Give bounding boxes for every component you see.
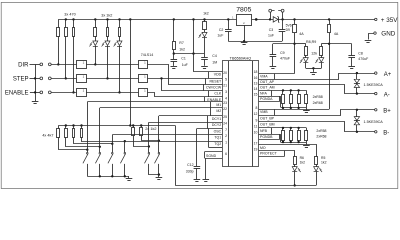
svg-text:3x 470: 3x 470: [64, 13, 75, 17]
wire ENABLE inverted row: [86, 92, 138, 94]
svg-text:21: 21: [223, 84, 227, 88]
LED D3: [119, 36, 121, 41]
terminal A-: [375, 92, 377, 94]
wire +5V switch-area rail: [58, 125, 175, 127]
wire OUT_BM to B- terminal: [259, 122, 375, 132]
LED D1: [95, 36, 97, 41]
wire TQ1 to switch S3: [112, 134, 222, 136]
wire PROTECT to R6: [259, 151, 295, 157]
input common ground wire: [35, 64, 37, 101]
wire DCY1 to switch S6: [159, 115, 222, 117]
svg-text:C2: C2: [219, 28, 224, 32]
resistor R5 1k2: [315, 157, 318, 165]
wire switch common rail: [87, 176, 129, 178]
wire +5V riser to switch area: [130, 19, 132, 125]
ground 7805: [241, 43, 248, 45]
resistor R8 12k: [295, 43, 306, 45]
svg-text:20: 20: [223, 71, 227, 75]
svg-text:8: 8: [256, 106, 258, 110]
capacitor C1 1uF: [173, 54, 175, 60]
svg-text:C8: C8: [358, 52, 363, 56]
ground C12: [194, 180, 201, 182]
svg-text:23: 23: [223, 101, 227, 105]
fuse F1 4A: [294, 19, 296, 24]
capacitor C3 1uF: [282, 19, 284, 29]
svg-text:DCY1: DCY1: [212, 117, 221, 121]
svg-text:1k2: 1k2: [179, 48, 185, 52]
svg-text:DCY2: DCY2: [212, 123, 221, 127]
svg-text:MO: MO: [260, 146, 266, 150]
svg-text:CW/CCW: CW/CCW: [206, 85, 222, 89]
ground C8: [348, 67, 355, 69]
fuse F2 4A: [329, 19, 331, 24]
svg-text:1k2: 1k2: [321, 161, 327, 165]
svg-text:11: 11: [254, 125, 258, 129]
svg-text:TQ1: TQ1: [214, 136, 221, 140]
ground terminal symbol: [365, 41, 372, 43]
+5V power bus wire (left section into 7805): [58, 19, 236, 21]
terminal +35V: [375, 18, 377, 20]
resistor 470 #1: [58, 19, 60, 27]
svg-text:16: 16: [254, 76, 258, 80]
wire STEP inverted row: [86, 78, 138, 80]
inverter U1E: [139, 75, 148, 83]
wire OUT_BP to B+ terminal: [259, 110, 375, 116]
svg-text:M2: M2: [216, 109, 221, 113]
svg-text:OUT_BM: OUT_BM: [260, 123, 275, 127]
svg-text:4A: 4A: [334, 32, 339, 36]
svg-text:PROTECT: PROTECT: [260, 152, 278, 156]
inverter U1A: [77, 61, 87, 69]
svg-text:C1: C1: [181, 56, 186, 60]
svg-text:C4: C4: [212, 54, 217, 58]
wire TQ2 to switch S4: [125, 141, 222, 143]
svg-text:2xR68: 2xR68: [316, 135, 326, 139]
wire junction STEP to CLK pin: [160, 77, 162, 79]
svg-text:24: 24: [223, 122, 227, 126]
resistor 470 #3: [73, 19, 75, 27]
resistor 470 #2: [65, 19, 67, 27]
svg-text:1.5KE39CA: 1.5KE39CA: [364, 83, 384, 87]
resistor 1k2 DCY #1: [132, 124, 134, 126]
svg-text:VMB: VMB: [260, 110, 268, 114]
LED D7: [305, 55, 307, 57]
ground C1: [171, 67, 178, 69]
wire VMA to fuse F1: [259, 73, 295, 75]
svg-text:3x 1k2: 3x 1k2: [101, 13, 112, 17]
svg-text:C12: C12: [187, 163, 193, 167]
svg-text:1uF: 1uF: [217, 33, 223, 37]
inverter U1D: [139, 61, 148, 69]
svg-text:B+: B+: [383, 109, 391, 115]
terminal B+: [375, 109, 377, 111]
wire +5V drop to bottom rail: [175, 126, 177, 186]
svg-text:1: 1: [225, 141, 227, 145]
svg-text:2x 1k2: 2x 1k2: [145, 127, 156, 131]
svg-text:18: 18: [254, 70, 258, 74]
svg-text:A-: A-: [384, 93, 390, 99]
TVS diode 1.5KE39CA phase A: [356, 73, 358, 94]
svg-text:1k2: 1k2: [300, 161, 306, 165]
capacitor C9 470uF: [273, 43, 295, 45]
wire M1 to switch S1: [87, 101, 222, 103]
wire PGNDA to sense rail: [259, 97, 281, 108]
svg-text:25: 25: [223, 115, 227, 119]
resistor 1k2 LED branch #3: [119, 19, 121, 27]
wire DCY2 to switch S5: [149, 122, 222, 124]
wire LED monitor common: [306, 68, 322, 70]
resistor R7 1k2: [173, 19, 175, 41]
svg-text:R8,R9: R8,R9: [306, 40, 316, 44]
svg-text:TQ2: TQ2: [214, 142, 221, 146]
svg-text:4x 4k7: 4x 4k7: [42, 133, 53, 137]
svg-text:3: 3: [225, 90, 227, 94]
svg-text:2: 2: [225, 134, 227, 138]
svg-text:SGND: SGND: [206, 154, 217, 158]
svg-text:OSC: OSC: [214, 129, 222, 133]
svg-text:C9: C9: [280, 51, 285, 55]
svg-text:9: 9: [256, 118, 258, 122]
zener diode D9 5V6: [273, 17, 278, 22]
wire sense A bottom rail: [281, 107, 306, 109]
wire MO to R5: [259, 145, 317, 157]
svg-text:VDD: VDD: [214, 73, 222, 77]
wire regulator ground rail: [228, 41, 282, 43]
wire OSC to C12: [197, 128, 222, 130]
svg-text:7: 7: [225, 128, 227, 132]
svg-text:12k: 12k: [311, 52, 317, 56]
switch S1: [87, 150, 89, 153]
terminal B-: [375, 131, 377, 133]
svg-text:R6: R6: [300, 156, 304, 160]
svg-text:+ 35V: + 35V: [381, 17, 398, 24]
svg-text:B-: B-: [383, 131, 389, 137]
svg-text:12: 12: [254, 112, 258, 116]
wire M2 to switch S2: [100, 107, 222, 109]
terminal GND: [374, 32, 376, 34]
svg-text:R5: R5: [321, 156, 325, 160]
svg-text:PGNDA: PGNDA: [260, 97, 273, 101]
wire OUT_AP to A+ terminal: [259, 74, 375, 80]
inverter U1C: [77, 89, 87, 97]
svg-text:17: 17: [254, 142, 258, 146]
wire 7805 output to +35V rail: [252, 19, 375, 21]
svg-text:NFB: NFB: [260, 129, 268, 133]
resistor 1k2 LED branch #2: [107, 19, 109, 27]
svg-text:PGNDB: PGNDB: [260, 135, 273, 139]
svg-text:7805: 7805: [236, 7, 251, 14]
LED D4 power: [204, 30, 206, 33]
sense resistors phase A 2xR58 2xR68: [282, 90, 284, 94]
capacitor C4 1M: [204, 54, 206, 58]
wire 7805 ground leg: [244, 25, 246, 41]
pin label box stack bottom line: [209, 147, 223, 149]
svg-text:STEP: STEP: [13, 76, 29, 82]
ground monitor LEDs: [310, 73, 317, 75]
svg-text:13: 13: [254, 81, 258, 85]
wire ENABLE to ENABLE pin: [148, 93, 223, 97]
svg-text:D9: D9: [286, 28, 290, 32]
svg-text:470uF: 470uF: [358, 57, 368, 61]
switch S6: [158, 141, 160, 153]
svg-text:330p: 330p: [186, 169, 194, 173]
svg-text:22: 22: [223, 107, 227, 111]
svg-text:OUT_AP: OUT_AP: [260, 80, 275, 84]
svg-text:M1: M1: [216, 103, 221, 107]
switch S3: [112, 144, 114, 152]
resistor 4k7 #1: [58, 126, 60, 129]
TVS diode 1.5KE39CA phase B: [356, 110, 358, 132]
resistor R9 12k: [321, 43, 329, 45]
inverter U1B: [77, 75, 87, 83]
svg-text:470uF: 470uF: [280, 57, 290, 61]
svg-text:R7: R7: [179, 41, 184, 45]
capacitor C8 470uF: [329, 43, 352, 45]
LED D8: [321, 55, 323, 57]
svg-text:10: 10: [254, 131, 258, 135]
switch S4: [124, 141, 126, 152]
svg-text:1.5KE39CA: 1.5KE39CA: [364, 120, 384, 124]
svg-text:TB6560AHQ: TB6560AHQ: [230, 57, 252, 61]
pin 6 SGND label box: [205, 151, 222, 153]
svg-text:RESET: RESET: [210, 79, 223, 83]
LED D6 protect: [294, 165, 296, 167]
wire PGNDB to sense rail: [259, 135, 281, 143]
svg-text:VMA: VMA: [260, 75, 268, 79]
svg-text:1uF: 1uF: [268, 33, 274, 37]
svg-text:NFA: NFA: [260, 91, 267, 95]
switch S5: [148, 147, 150, 153]
resistor 4k7 #4: [80, 124, 82, 126]
svg-text:5: 5: [225, 78, 227, 82]
node dots on top bus: [65, 18, 67, 20]
ground DCY switches: [158, 175, 160, 178]
right label box ticks: [274, 74, 276, 80]
svg-text:1M: 1M: [212, 61, 217, 65]
wire SGND to ground: [205, 158, 207, 179]
svg-text:GND: GND: [381, 31, 395, 38]
inverter U1F: [139, 89, 148, 97]
resistor 1k2 DCY #2: [140, 124, 142, 126]
svg-text:5V6: 5V6: [286, 23, 292, 27]
svg-text:19: 19: [254, 147, 258, 151]
ground sense B: [306, 142, 308, 145]
svg-text:OUT_BP: OUT_BP: [260, 116, 275, 120]
svg-text:2xR58: 2xR58: [316, 129, 326, 133]
ground input common: [32, 102, 39, 104]
ground sense A: [306, 108, 308, 111]
switch S2: [99, 147, 101, 152]
jumper J1 over zener: [269, 9, 272, 12]
wire sense B bottom rail: [281, 142, 306, 144]
wire +5V riser to VDD pin: [194, 20, 223, 72]
capacitor C2 1uF: [228, 19, 230, 29]
wire VMB to fuse F2: [259, 109, 329, 111]
LED D5 MO: [316, 165, 318, 167]
svg-text:2xR58: 2xR58: [313, 95, 323, 99]
LED D2: [107, 36, 109, 41]
svg-text:15: 15: [254, 93, 258, 97]
border frame: [1, 2, 398, 188]
resistor 4k7 #3: [72, 124, 74, 126]
svg-text:DIR: DIR: [18, 62, 29, 68]
ground C9: [270, 67, 277, 69]
svg-text:A+: A+: [384, 72, 392, 78]
wire STEP to RESET pin: [148, 78, 222, 80]
svg-text:4: 4: [225, 96, 227, 100]
svg-text:74LS14: 74LS14: [141, 53, 153, 57]
sense resistors phase B 2xR58 2xR68: [282, 128, 284, 131]
ground C4: [201, 67, 208, 69]
svg-text:1uF: 1uF: [182, 63, 188, 67]
svg-text:2xR68: 2xR68: [313, 101, 323, 105]
ground SGND: [203, 180, 210, 182]
ground switch rail: [128, 176, 130, 178]
capacitor C12 330p: [194, 166, 201, 168]
svg-text:6: 6: [225, 152, 227, 156]
svg-text:CLK: CLK: [214, 92, 221, 96]
svg-text:C3: C3: [269, 28, 274, 32]
terminal A+: [375, 72, 377, 74]
wire OUT_AM to A- terminal: [259, 85, 375, 94]
svg-text:1k2: 1k2: [203, 11, 209, 15]
wire DIR inverted row: [86, 64, 138, 66]
svg-text:ENABLE: ENABLE: [5, 90, 29, 96]
resistor 4k7 #2: [65, 124, 67, 126]
svg-text:4A: 4A: [299, 32, 304, 36]
resistor R6 1k2: [294, 157, 297, 165]
svg-text:OUT_AM: OUT_AM: [260, 86, 275, 90]
svg-text:vr: vr: [243, 21, 245, 25]
wire DIR to CW/CCW pin: [148, 65, 223, 85]
wire RESET RC node: [174, 53, 205, 55]
wire +5V bottom rail to LEDs: [175, 185, 316, 187]
wire NFA to sense resistors: [259, 90, 307, 92]
svg-text:14: 14: [254, 87, 258, 91]
wire NFB to sense resistors: [259, 127, 307, 129]
resistor 1k2 LED branch #1: [95, 19, 97, 27]
